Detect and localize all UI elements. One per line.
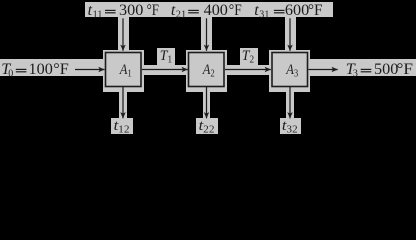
- bottom arrow 1: [122, 87, 124, 118]
- svg-text:100: 100: [29, 60, 53, 78]
- svg-text:°F: °F: [147, 1, 159, 19]
- gray patch: bottom arrow strip 2: [203, 92, 211, 119]
- gray patch: box A3: [269, 50, 310, 92]
- gray patch: label t12: [111, 118, 133, 135]
- svg-text:A1: A1: [119, 62, 132, 80]
- gray patch: right output band: [306, 59, 416, 77]
- top arrow 1: [122, 18, 124, 51]
- svg-text:500: 500: [374, 60, 398, 78]
- bottom arrow 2: [206, 87, 208, 118]
- svg-text:°F: °F: [53, 60, 69, 78]
- arrow A2 to A3: [225, 69, 271, 71]
- svg-text:°F: °F: [229, 1, 242, 19]
- top arrow 3: [289, 18, 291, 51]
- input arrow: [75, 69, 105, 71]
- svg-text:t11: t11: [88, 1, 103, 20]
- svg-text:t12: t12: [114, 118, 130, 135]
- arrow A1 to A2: [142, 69, 188, 71]
- equals sign of t31: [274, 10, 285, 11]
- gray patch: top labels band: [85, 2, 333, 17]
- svg-text:t31: t31: [254, 1, 269, 20]
- equals sign of t21: [188, 10, 199, 11]
- gray patch: arrow strip A2-A3: [226, 65, 272, 76]
- svg-text:T1: T1: [160, 48, 173, 66]
- box A1: [106, 53, 142, 87]
- svg-text:T2: T2: [242, 48, 255, 66]
- top arrow 2: [206, 18, 208, 51]
- gray patch: top arrow strip 2: [201, 17, 212, 50]
- svg-text:T3: T3: [346, 60, 358, 79]
- gray patch: left input band: [0, 59, 106, 76]
- svg-text:°F: °F: [308, 1, 323, 19]
- equals sign of t11: [105, 10, 116, 11]
- svg-text:A3: A3: [285, 62, 298, 80]
- gray patch: label t32: [280, 118, 302, 135]
- box A3: [272, 53, 308, 87]
- gray patch: box A1: [103, 50, 144, 92]
- equals sign of T0: [16, 69, 27, 70]
- svg-text:t32: t32: [282, 118, 298, 135]
- svg-text:300: 300: [119, 1, 143, 19]
- svg-text:A2: A2: [202, 62, 215, 80]
- svg-text:400: 400: [204, 1, 228, 19]
- equals sign of T3: [361, 69, 372, 70]
- svg-text:t22: t22: [199, 118, 215, 135]
- box A2: [189, 53, 225, 87]
- svg-text:T0: T0: [1, 60, 13, 79]
- gray patch: label T2 bump: [240, 48, 258, 66]
- gray patch: top arrow strip 1: [118, 17, 129, 50]
- gray patch: bottom arrow strip 3: [286, 92, 294, 119]
- svg-text:°F: °F: [397, 60, 414, 78]
- svg-text:600: 600: [285, 1, 309, 19]
- gray patch: arrow strip A1-A2: [143, 65, 189, 76]
- bottom arrow 3: [289, 87, 291, 118]
- svg-text:t21: t21: [171, 1, 186, 20]
- output arrow: [309, 69, 338, 71]
- gray patch: label t22: [196, 118, 218, 135]
- gray patch: box A2: [186, 50, 227, 92]
- gray patch: label T1 bump: [157, 48, 175, 66]
- gray patch: bottom arrow strip 1: [119, 92, 127, 119]
- gray patch: top arrow strip 3: [285, 17, 296, 50]
